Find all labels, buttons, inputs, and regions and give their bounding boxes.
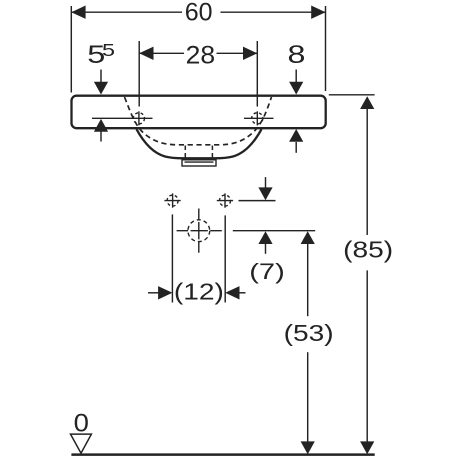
dimension (12): left arrow outside xyxy=(148,292,159,294)
drain flange xyxy=(182,160,216,166)
outer bowl profile xyxy=(137,129,262,158)
label 5 superscript xyxy=(102,40,115,60)
dimension 5.5: down arrow to deck top xyxy=(100,70,102,83)
fixing hole left crosshair xyxy=(164,193,180,207)
inner bowl hidden outline (dashed) xyxy=(125,97,272,145)
dimension 5.5: up arrow to faucet level xyxy=(100,132,102,142)
svg-text:8: 8 xyxy=(288,42,306,70)
washbasin deck outline xyxy=(72,96,326,129)
svg-text:(85): (85) xyxy=(343,237,393,263)
dimension 60: dimension line xyxy=(71,11,325,13)
faucet hole right crosshair xyxy=(244,111,274,125)
dimension 28: extension lines xyxy=(139,41,257,107)
dimension (53): vertical line with arrows xyxy=(307,244,309,443)
dimension (12): right arrow outside xyxy=(239,292,246,294)
floor datum triangle xyxy=(71,434,92,453)
dimension (7): bottom reference line (shared with 53) xyxy=(233,230,315,232)
dimension 28: dimension line xyxy=(139,52,257,54)
dimension (7): up arrow xyxy=(265,244,267,254)
svg-text:0: 0 xyxy=(74,409,89,438)
label 8 xyxy=(288,42,306,70)
dimension (12): extension lines xyxy=(172,214,225,302)
svg-text:(7): (7) xyxy=(249,259,285,284)
faucet hole left crosshair xyxy=(92,111,153,125)
dimension 8: up arrow to deck bottom xyxy=(295,142,297,153)
dimension 8: down arrow to deck top xyxy=(295,70,297,83)
fixing hole right crosshair xyxy=(217,193,233,207)
label 0 datum xyxy=(74,409,89,438)
dimension (7): top reference line xyxy=(239,200,276,202)
drain hole circle (dashed) with centerlines xyxy=(177,209,222,253)
dimension (85): vertical line with arrows xyxy=(366,109,368,443)
svg-text:5: 5 xyxy=(102,40,115,60)
svg-text:28: 28 xyxy=(186,42,216,70)
dimension 60: arrowheads xyxy=(71,6,85,19)
svg-text:(53): (53) xyxy=(284,320,334,346)
drain hidden lines (dashed) xyxy=(185,146,212,160)
dimension (7): down arrow xyxy=(265,177,267,188)
dimension (85): top reference line xyxy=(329,94,375,96)
label 5 main xyxy=(87,42,105,70)
svg-text:(12): (12) xyxy=(174,278,224,304)
floor line xyxy=(71,453,374,456)
svg-text:60: 60 xyxy=(185,0,213,27)
dimension 60: extension lines xyxy=(71,6,325,93)
dimension 28: arrowheads xyxy=(139,47,153,60)
